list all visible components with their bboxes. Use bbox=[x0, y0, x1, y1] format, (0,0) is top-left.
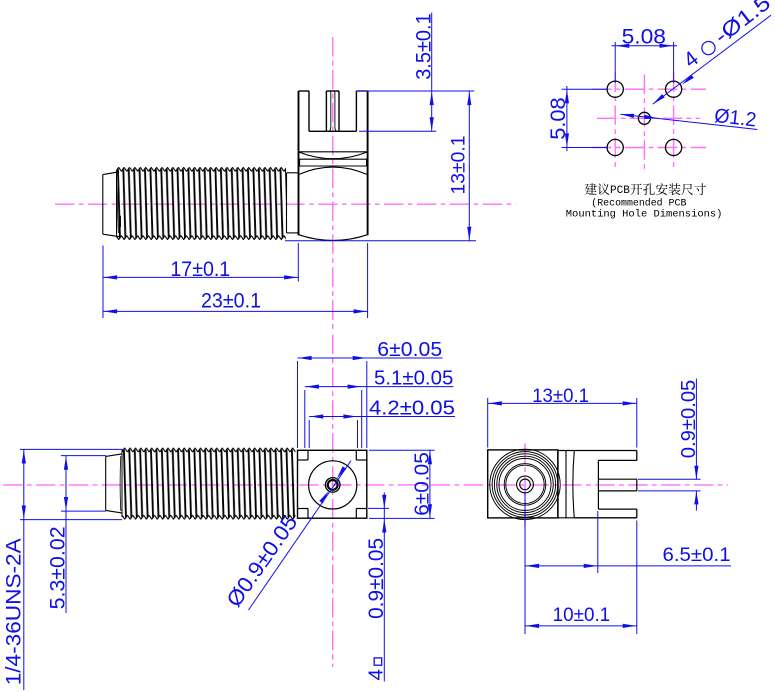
svg-text:4: 4 bbox=[364, 669, 387, 680]
svg-text:0.9±0.05: 0.9±0.05 bbox=[364, 538, 388, 619]
svg-text:4.2±0.05: 4.2±0.05 bbox=[369, 397, 455, 420]
svg-text:PCB: PCB bbox=[610, 185, 630, 197]
svg-text:17±0.1: 17±0.1 bbox=[170, 258, 230, 281]
svg-text:23±0.1: 23±0.1 bbox=[201, 289, 261, 312]
svg-text:5.08: 5.08 bbox=[546, 97, 570, 140]
svg-text:5.1±0.05: 5.1±0.05 bbox=[374, 367, 453, 390]
svg-text:Ø1.2: Ø1.2 bbox=[713, 105, 757, 131]
svg-text:0.9±0.05: 0.9±0.05 bbox=[677, 380, 700, 459]
svg-text:6±0.05: 6±0.05 bbox=[411, 452, 434, 516]
svg-text:Mounting Hole Dimensions): Mounting Hole Dimensions) bbox=[566, 208, 723, 220]
svg-text:3.5±0.1: 3.5±0.1 bbox=[413, 13, 436, 80]
svg-text:13±0.1: 13±0.1 bbox=[532, 386, 589, 407]
svg-text:1/4-36UNS-2A: 1/4-36UNS-2A bbox=[2, 537, 26, 685]
svg-text:10±0.1: 10±0.1 bbox=[553, 605, 611, 626]
svg-text:6±0.05: 6±0.05 bbox=[377, 338, 442, 361]
svg-text:6.5±0.1: 6.5±0.1 bbox=[663, 544, 731, 566]
svg-text:13±0.1: 13±0.1 bbox=[448, 136, 469, 195]
svg-text:5.3±0.02: 5.3±0.02 bbox=[45, 526, 69, 609]
svg-text:5.08: 5.08 bbox=[622, 24, 666, 48]
